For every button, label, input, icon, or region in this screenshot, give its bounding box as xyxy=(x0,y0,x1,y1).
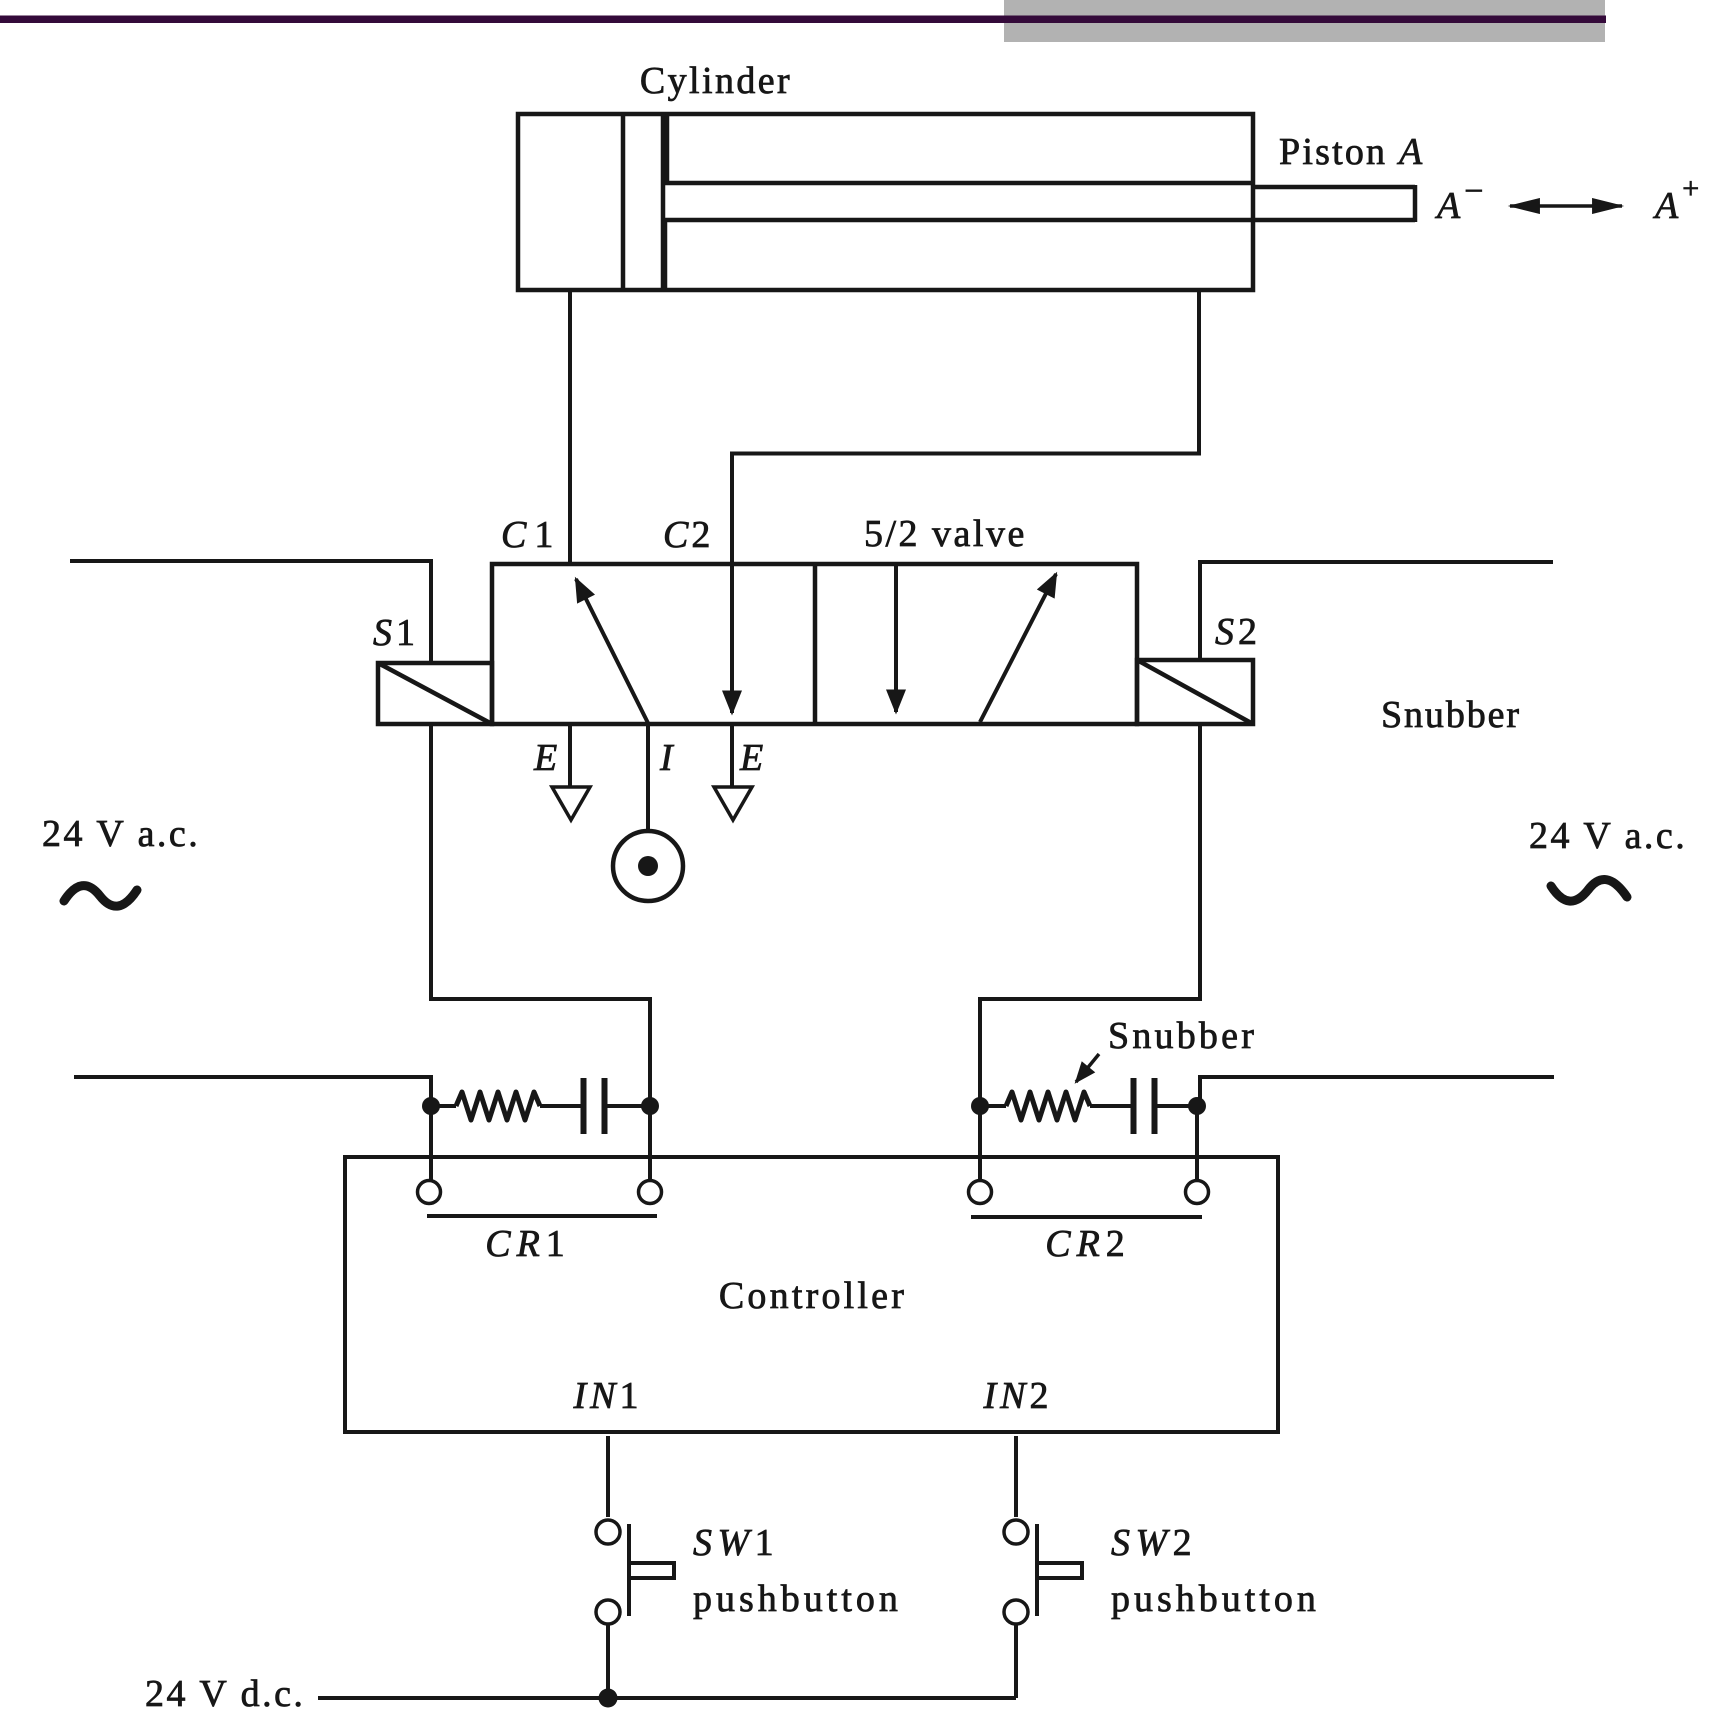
capacitor C1 xyxy=(584,1078,605,1134)
svg-text:Snubber: Snubber xyxy=(1108,1015,1257,1057)
svg-text:S1: S1 xyxy=(373,612,419,654)
valve flow arrow down right box xyxy=(894,564,898,712)
relay contact CR2 xyxy=(969,1181,1209,1204)
svg-text:pushbutton: pushbutton xyxy=(1111,1578,1320,1620)
svg-text:E: E xyxy=(739,737,763,779)
svg-text:5/2 valve: 5/2 valve xyxy=(864,513,1027,555)
ac source symbol right xyxy=(1551,880,1627,902)
valve flow arrow diagonal right box xyxy=(980,574,1056,722)
wire xyxy=(540,1104,581,1108)
resistor R2 xyxy=(1006,1092,1090,1120)
wire xyxy=(1090,1104,1131,1108)
exhaust port E left xyxy=(568,724,572,787)
wire IN1 xyxy=(606,1436,610,1517)
svg-text:E: E xyxy=(533,737,557,779)
svg-text:CR1: CR1 xyxy=(485,1223,571,1265)
pushbutton SW2 xyxy=(1004,1520,1082,1624)
wire node to CR2 left xyxy=(978,1106,982,1183)
solenoid S1 xyxy=(378,663,492,724)
wire IN2 xyxy=(1014,1436,1018,1517)
svg-text:A+: A+ xyxy=(1652,172,1699,227)
exhaust port E right xyxy=(730,724,734,787)
snubber label arrow xyxy=(1076,1054,1099,1082)
svg-text:CR2: CR2 xyxy=(1045,1223,1131,1265)
header rule xyxy=(0,16,1606,24)
node right snubber left xyxy=(971,1097,989,1115)
svg-text:pushbutton: pushbutton xyxy=(693,1578,902,1620)
wire lower left supply rail xyxy=(74,1077,431,1106)
svg-text:Controller: Controller xyxy=(719,1275,907,1317)
wire node to CR1 right xyxy=(648,1106,652,1181)
wire xyxy=(980,1104,1006,1108)
controller box xyxy=(345,1157,1278,1432)
svg-text:C1: C1 xyxy=(501,514,561,556)
ac source symbol left xyxy=(64,886,137,907)
svg-text:I: I xyxy=(659,737,675,779)
valve position divider xyxy=(813,564,818,724)
relay contact CR1 xyxy=(418,1181,662,1204)
wire xyxy=(607,1104,650,1108)
wire node to CR1 left xyxy=(429,1106,433,1181)
wire S1 to left snubber xyxy=(431,724,650,1106)
svg-text:Piston A: Piston A xyxy=(1279,131,1424,173)
solenoid S2 xyxy=(1137,660,1253,724)
cylinder body xyxy=(518,114,1253,290)
svg-text:C2: C2 xyxy=(663,514,713,556)
svg-text:SW2: SW2 xyxy=(1111,1522,1197,1564)
node left snubber left xyxy=(422,1097,440,1115)
motion arrow xyxy=(1510,204,1622,208)
valve U1 body xyxy=(492,564,1137,724)
wire xyxy=(431,1104,456,1108)
node left snubber right xyxy=(641,1097,659,1115)
piston rod xyxy=(665,185,1415,288)
svg-text:SW1: SW1 xyxy=(693,1522,779,1564)
svg-text:24 V d.c.: 24 V d.c. xyxy=(145,1673,305,1715)
svg-text:24 V a.c.: 24 V a.c. xyxy=(42,813,200,855)
wire lower right supply rail xyxy=(1200,1077,1554,1106)
pipe C2 xyxy=(732,290,1199,713)
wire xyxy=(1157,1104,1197,1108)
node right snubber right xyxy=(1188,1097,1206,1115)
capacitor C2 xyxy=(1134,1078,1155,1134)
valve flow arrow I to C1 xyxy=(576,579,649,725)
wire SW1 to dc rail xyxy=(606,1624,610,1698)
wire upper right supply rail to S2 xyxy=(1200,562,1553,660)
svg-text:Snubber: Snubber xyxy=(1381,694,1521,736)
pushbutton SW1 xyxy=(596,1520,674,1624)
svg-text:IN2: IN2 xyxy=(983,1375,1053,1417)
wire upper left supply rail to S1 xyxy=(70,561,431,663)
header bar xyxy=(1004,0,1605,42)
junction node dc rail xyxy=(599,1689,618,1708)
wire node to CR2 right xyxy=(1195,1106,1199,1183)
pipe C1 xyxy=(568,290,572,566)
svg-text:Cylinder: Cylinder xyxy=(640,60,792,102)
svg-text:IN1: IN1 xyxy=(573,1375,643,1417)
wire S2 to right snubber xyxy=(980,724,1200,1106)
wire SW2 to dc rail xyxy=(1014,1624,1018,1698)
svg-text:S2: S2 xyxy=(1215,611,1261,653)
svg-text:A−: A− xyxy=(1434,173,1483,227)
svg-text:24 V a.c.: 24 V a.c. xyxy=(1529,815,1687,857)
wire 24 V d.c. rail xyxy=(318,1696,1016,1700)
resistor R1 xyxy=(456,1092,540,1120)
inlet port I xyxy=(646,724,650,832)
